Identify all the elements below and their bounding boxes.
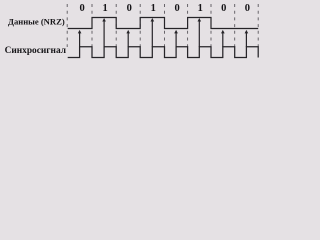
sampling arrow at clock rising edge (cell 7) [221,30,225,47]
svg-text:0: 0 [174,3,179,14]
svg-text:Синхросигнал: Синхросигнал [5,46,67,56]
bit-cell boundary dashed line 9 [257,4,259,47]
bit-cell boundary dashed line 3 [115,4,117,47]
NRZ data vs clock timing diagram [0,0,271,73]
data (NRZ) waveform [68,18,259,29]
sampling arrow at clock rising edge (cell 2) [102,18,106,47]
svg-text:0: 0 [221,3,226,14]
bit-cell boundary dashed line 1 [66,4,68,47]
svg-text:0: 0 [127,3,132,14]
bit-cell boundary dashed line 8 [234,4,236,47]
clock (sync) waveform [68,47,259,58]
bit-cell boundary dashed line 4 [139,4,141,47]
svg-text:Данные (NRZ): Данные (NRZ) [8,16,65,26]
bit-cell boundary dashed line 5 [164,4,166,47]
sampling arrow at clock rising edge (cell 6) [198,18,202,47]
sampling arrow at clock rising edge (cell 1) [78,30,82,47]
bit-cell boundary dashed line 2 [91,4,93,47]
sampling arrow at clock rising edge (cell 5) [174,30,178,47]
svg-text:0: 0 [79,3,84,14]
sampling arrow at clock rising edge (cell 8) [245,30,249,47]
svg-text:0: 0 [245,3,250,14]
sampling arrow at clock rising edge (cell 3) [126,30,130,47]
svg-text:1: 1 [151,3,156,14]
svg-text:1: 1 [102,3,107,14]
bit-cell boundary dashed line 7 [210,4,212,47]
svg-text:1: 1 [198,3,203,14]
sampling arrow at clock rising edge (cell 4) [151,18,155,47]
bit-cell boundary dashed line 6 [187,4,189,47]
